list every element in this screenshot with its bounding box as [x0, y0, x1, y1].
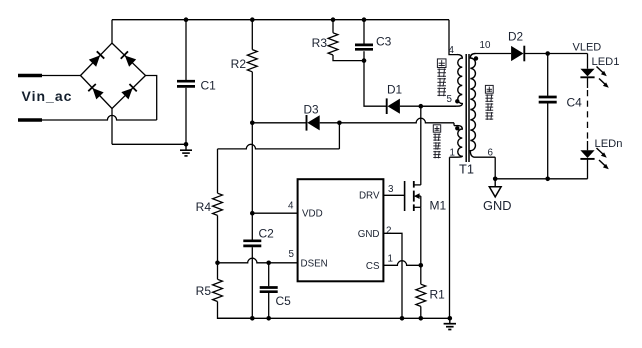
- node C2 bottom rail junction: [250, 316, 255, 321]
- node CS junction: [419, 263, 424, 268]
- wire CS pin with hop: [383, 261, 420, 266]
- diode D2: [511, 46, 523, 61]
- wire C5 bottom lead: [268, 293, 270, 318]
- wire R4 top lead: [217, 149, 219, 193]
- svg-text:C3: C3: [376, 35, 392, 49]
- svg-text:LED1: LED1: [592, 56, 620, 68]
- wire C4 bottom lead: [547, 103, 549, 178]
- wire R2 to D3: [252, 122, 306, 124]
- wire AC lower lead with hop: [42, 115, 157, 120]
- svg-text:D3: D3: [304, 103, 320, 117]
- phase dot primary: [455, 99, 459, 103]
- node ground junction: [184, 142, 189, 147]
- svg-text:DRV: DRV: [359, 191, 380, 202]
- ground earth symbol left: [180, 144, 192, 156]
- svg-text:D1: D1: [387, 83, 402, 97]
- node VDD junction: [250, 211, 255, 216]
- node C5 top junction: [266, 261, 271, 266]
- svg-text:10: 10: [480, 40, 491, 51]
- wire R4 bottom lead: [217, 215, 219, 262]
- svg-text:T1: T1: [459, 162, 474, 177]
- svg-text:Vin_ac: Vin_ac: [22, 88, 73, 104]
- resistor R1: [416, 284, 426, 306]
- capacitor C3: [355, 44, 373, 47]
- LED LED1: [580, 67, 608, 89]
- diode D1: [388, 99, 400, 114]
- wire aux node drop: [338, 123, 340, 149]
- LED LEDn: [580, 148, 608, 179]
- terminal AC lower: [18, 118, 42, 121]
- svg-text:1: 1: [450, 148, 455, 159]
- svg-text:R2: R2: [231, 57, 247, 71]
- terminal AC upper: [18, 74, 42, 77]
- resistor R2: [247, 50, 257, 72]
- svg-text:GND: GND: [358, 229, 380, 240]
- wire right-vertex drop: [146, 76, 157, 121]
- svg-text:C5: C5: [276, 294, 292, 308]
- node C4 bottom junction: [545, 177, 550, 182]
- node C1 top: [184, 17, 189, 22]
- wire R3 top lead: [332, 20, 334, 33]
- wire AC upper lead: [42, 75, 81, 77]
- wire top rail: [112, 19, 449, 21]
- ground GND symbol: [489, 179, 501, 197]
- svg-text:C1: C1: [201, 79, 217, 93]
- node R2/D3 junction: [250, 121, 255, 126]
- wire LED dashed link: [587, 90, 589, 141]
- wire DRV pin: [383, 194, 404, 196]
- svg-text:D2: D2: [508, 30, 523, 44]
- wire DSEN to IC: [269, 262, 298, 264]
- bridge diode D_BR: [121, 84, 136, 99]
- svg-text:5: 5: [289, 249, 295, 260]
- svg-text:1: 1: [388, 254, 393, 265]
- wire drain node to pin5: [421, 105, 456, 107]
- node R1 rail junction: [419, 316, 424, 321]
- wire R1 top lead: [420, 265, 422, 284]
- transformer T1 secondary winding: [470, 54, 495, 158]
- capacitor C2: [243, 239, 261, 242]
- wire M1 drain: [420, 106, 422, 185]
- wire bridge top column: [111, 20, 113, 43]
- svg-text:R1: R1: [430, 288, 446, 302]
- svg-text:C4: C4: [567, 96, 583, 110]
- wire C5 top lead: [268, 263, 270, 286]
- wire aux feed to winding with hop: [339, 118, 454, 123]
- node GND-pin rail junction: [400, 316, 405, 321]
- wire R2 column mid: [251, 123, 253, 213]
- bridge diode D_BL: [88, 84, 103, 99]
- label primary winding 主级线圈: [437, 59, 446, 68]
- transformer T1 primary winding: [421, 55, 462, 107]
- svg-text:VLED: VLED: [573, 42, 602, 54]
- svg-text:2: 2: [386, 226, 391, 237]
- node R2 top: [250, 17, 255, 22]
- wire C4 top lead: [547, 54, 549, 96]
- wire DSEN line with hop: [218, 258, 269, 263]
- svg-text:R4: R4: [196, 200, 212, 214]
- wire C2 top lead: [251, 213, 253, 239]
- wire pin10 to D2: [476, 53, 512, 55]
- capacitor C4: [539, 96, 557, 99]
- bridge diode D_TL: [89, 51, 104, 66]
- diode D3: [307, 115, 319, 130]
- wire C1 bottom lead: [185, 88, 187, 145]
- label secondary winding 次级线圈: [485, 85, 493, 93]
- wire negative rail to ground node: [112, 143, 186, 145]
- svg-text:5: 5: [447, 94, 453, 105]
- wire bottom rail: [218, 317, 450, 319]
- node C4 top junction: [545, 51, 550, 56]
- wire bridge edge BL: [81, 76, 113, 109]
- wire C1 top lead: [185, 20, 187, 80]
- node C3 top: [362, 17, 367, 22]
- svg-text:R3: R3: [312, 36, 328, 50]
- wire VDD pin: [252, 212, 297, 214]
- svg-text:DSEN: DSEN: [301, 258, 328, 269]
- wire R1 bottom lead: [420, 306, 422, 318]
- wire R5 top lead: [217, 263, 219, 280]
- svg-text:GND: GND: [483, 198, 511, 213]
- wire C3 bottom lead: [363, 51, 365, 60]
- wire bridge negative column: [111, 109, 113, 145]
- wire pin6 column: [494, 157, 496, 179]
- resistor R4: [213, 193, 223, 215]
- wire VLED drop: [587, 54, 589, 69]
- wire C3 top lead: [363, 20, 365, 44]
- phase dot auxiliary: [455, 126, 459, 130]
- svg-text:VDD: VDD: [302, 209, 323, 220]
- wire pin4 column: [449, 20, 457, 55]
- resistor R5: [213, 279, 223, 301]
- transformer T1 auxiliary winding: [450, 126, 463, 158]
- svg-text:4: 4: [288, 201, 294, 212]
- wire snubber to D1: [364, 61, 387, 107]
- ground earth symbol right: [444, 318, 456, 329]
- wire sense line with hop: [218, 144, 340, 149]
- svg-text:6: 6: [488, 148, 494, 159]
- wire R3 bottom lead: [333, 55, 364, 61]
- bridge diode D_TR: [121, 51, 136, 66]
- node DSEN left junction: [215, 261, 220, 266]
- transformer T1 core: [465, 54, 467, 162]
- svg-text:R5: R5: [196, 284, 212, 298]
- node secondary ground junction: [493, 177, 498, 182]
- svg-text:3: 3: [388, 184, 394, 195]
- wire M1 source: [420, 207, 422, 265]
- capacitor C1: [177, 80, 195, 83]
- wire D2 to VLED corner: [524, 53, 587, 55]
- wire bridge edge TL: [81, 43, 113, 75]
- svg-text:4: 4: [449, 45, 455, 56]
- wire D3 to aux node: [320, 122, 340, 124]
- svg-text:LEDn: LEDn: [595, 138, 623, 150]
- wire secondary bottom rail: [495, 178, 587, 180]
- wire R2 bottom lead: [251, 72, 253, 123]
- op-amp controller U1 box: [298, 179, 384, 281]
- svg-text:M1: M1: [430, 199, 447, 213]
- node aux feed junction: [337, 121, 342, 126]
- transistor M1: [405, 181, 421, 211]
- node drain junction: [419, 104, 424, 109]
- capacitor C5: [260, 286, 278, 289]
- node main ground junction: [448, 316, 453, 321]
- wire R5 bottom lead: [218, 302, 253, 319]
- wire bridge edge BR: [112, 76, 146, 109]
- wire D1 to drain node: [400, 105, 421, 107]
- svg-text:CS: CS: [366, 261, 380, 272]
- node snubber junction: [362, 58, 367, 63]
- svg-text:C2: C2: [259, 227, 275, 241]
- resistor R3: [328, 33, 338, 55]
- wire C2 bottom lead: [251, 247, 253, 318]
- node R3 top: [331, 17, 336, 22]
- wire GND pin: [383, 233, 402, 318]
- phase dot secondary: [474, 56, 478, 60]
- wire LEDn top lead: [587, 141, 589, 150]
- label auxiliary winding 辅助线圈: [433, 125, 440, 132]
- node C5 bottom rail junction: [266, 316, 271, 321]
- wire R2 top lead: [251, 20, 253, 50]
- wire bridge edge TR: [112, 43, 146, 75]
- wire aux pin1 column: [449, 157, 451, 318]
